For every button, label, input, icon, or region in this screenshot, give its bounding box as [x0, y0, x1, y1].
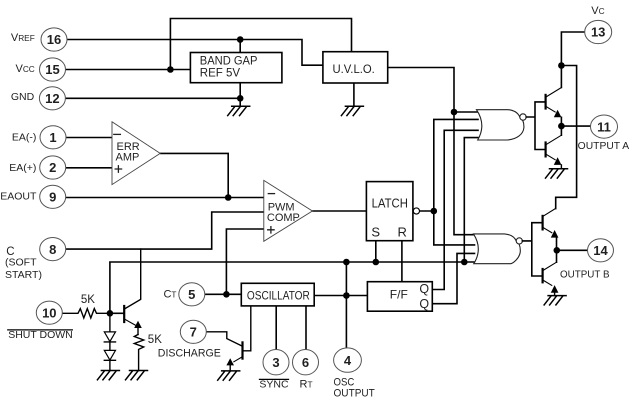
svg-text:VCC: VCC	[15, 63, 34, 75]
pin 5	[179, 283, 205, 306]
svg-text:OUTPUT A: OUTPUT A	[578, 141, 630, 152]
svg-text:SHUT DOWN: SHUT DOWN	[8, 329, 73, 341]
NOR gate 1 bubble	[520, 114, 526, 120]
wire F/F Q to gate1	[432, 130, 478, 289]
box BAND GAP REF 5V	[190, 53, 282, 83]
svg-text:BAND GAP: BAND GAP	[200, 56, 258, 68]
svg-text:COMP: COMP	[267, 212, 300, 224]
svg-text:GND: GND	[11, 91, 35, 103]
wire oscillator to pin6 RT	[305, 306, 307, 350]
wire UVLO ground	[353, 83, 355, 106]
pin 2	[40, 156, 66, 179]
svg-text:9: 9	[49, 190, 56, 205]
wire blanking line from shutdown node across to gate2, with branch up to gate1	[110, 138, 478, 314]
svg-text:11: 11	[597, 119, 611, 134]
box LATCH	[366, 182, 413, 241]
pin 4	[334, 348, 362, 372]
pin 16	[41, 28, 67, 51]
wire EA(+) input	[66, 167, 112, 169]
node VREF-bandgap junction	[237, 36, 244, 43]
box UVLO	[323, 52, 388, 83]
svg-text:START): START)	[5, 269, 42, 281]
svg-text:10: 10	[42, 305, 56, 320]
ground below diodes	[97, 371, 119, 380]
wire GND net: pin12 to bandgap ground	[65, 83, 240, 107]
NOR gate 1 (output A)	[477, 110, 524, 140]
pin 12	[39, 87, 65, 110]
svg-text:16: 16	[47, 32, 61, 47]
svg-text:Q: Q	[419, 282, 429, 296]
svg-text:13: 13	[591, 25, 605, 40]
pin 11	[591, 115, 618, 138]
wire VCC net: pin15 to bandgap left, riser to top rail feeding UVLO top	[66, 19, 352, 70]
wire NOR2 output to B transistor bases	[522, 223, 541, 276]
svg-text:F/F: F/F	[390, 288, 408, 302]
wire oscillator output to F/F and down to pin4, up to blanking line	[314, 262, 367, 348]
pin 1	[40, 126, 66, 149]
svg-text:RT: RT	[300, 379, 313, 391]
wire latch R input down to F/F	[401, 241, 403, 282]
pin 3	[263, 350, 289, 375]
node CT junction	[223, 291, 230, 298]
wire F/F Qbar to gate2	[432, 253, 474, 303]
svg-text:EAOUT: EAOUT	[0, 191, 37, 203]
pin 9	[40, 185, 66, 208]
wire NOR1 output to A transistor bases	[526, 102, 544, 150]
svg-text:4: 4	[344, 353, 352, 368]
wire EAOUT line: pin9 to PWM inverting input	[66, 197, 263, 199]
wire UVLO output to both NOR gates	[388, 68, 478, 235]
wire VREF net: pin16 to bandgap top and UVLO left input	[67, 40, 323, 66]
node blanking-gate1 junction	[461, 259, 468, 266]
node output B	[554, 247, 561, 254]
diode D1	[109, 317, 111, 332]
node GND junction	[237, 95, 244, 102]
svg-text:7: 7	[190, 325, 197, 340]
wire latch S input to blanking line	[375, 241, 377, 262]
NOR gate 2 (output B)	[474, 234, 521, 264]
wire LATCH output bus up to gate1 and down to gate2	[420, 119, 478, 244]
svg-text:S: S	[371, 224, 380, 239]
svg-text:OUTPUT B: OUTPUT B	[560, 270, 610, 281]
wire ERR AMP output down to EAOUT line	[161, 153, 228, 197]
svg-text:SYNC: SYNC	[259, 379, 289, 391]
svg-text:Q: Q	[419, 297, 429, 311]
ground below UVLO	[341, 106, 363, 115]
wire output A to pin 11	[561, 125, 590, 127]
node latch output junction	[431, 208, 438, 215]
wire oscillator to pin3 SYNC	[275, 306, 277, 350]
svg-text:5K: 5K	[81, 294, 95, 306]
svg-text:EA(-): EA(-)	[12, 132, 37, 144]
svg-text:DISCHARGE: DISCHARGE	[158, 347, 221, 359]
svg-text:AMP: AMP	[116, 152, 140, 164]
discharge transistor Q-discharge	[207, 332, 242, 346]
ground below bandgap	[228, 106, 250, 115]
svg-text:3: 3	[272, 355, 279, 370]
svg-text:CT: CT	[163, 288, 176, 300]
pin 13	[585, 20, 612, 43]
svg-text:VREF: VREF	[11, 32, 35, 44]
op-amp PWM COMP	[264, 180, 313, 241]
op-amp ERR AMP	[112, 122, 160, 185]
node EAOUT junction	[225, 194, 232, 201]
box OSCILLATOR	[241, 283, 314, 306]
node UVLO to gate1	[451, 109, 458, 116]
svg-text:OUTPUT: OUTPUT	[334, 387, 376, 399]
resistor 5K emitter	[134, 335, 143, 371]
box F/F	[367, 282, 432, 312]
node output A	[558, 123, 565, 130]
svg-text:2: 2	[49, 160, 56, 175]
svg-text:6: 6	[302, 355, 309, 370]
pin 14	[588, 239, 614, 262]
ground below output A	[546, 169, 568, 178]
pin 15	[40, 58, 66, 81]
pin 6	[293, 350, 319, 375]
transistor QA-top	[546, 88, 562, 136]
node shutdown junction	[107, 310, 114, 317]
resistor 5K from pin10	[62, 309, 110, 318]
svg-text:5: 5	[188, 287, 195, 302]
svg-text:12: 12	[45, 91, 59, 106]
pin 7	[180, 320, 206, 343]
transistor QA-bottom	[546, 135, 562, 169]
wire EA(-) input	[67, 137, 113, 139]
latch output bubble	[413, 208, 419, 214]
svg-text:8: 8	[49, 242, 56, 257]
wire VC net: pin13 down to output A collector and rail to output B	[556, 32, 585, 209]
node VC junction	[558, 62, 565, 69]
svg-text:OSCILLATOR: OSCILLATOR	[247, 290, 310, 302]
node S junction	[373, 259, 380, 266]
ground below output B	[544, 296, 566, 305]
svg-text:LATCH: LATCH	[372, 197, 408, 211]
svg-text:5K: 5K	[148, 334, 162, 346]
NOR gate 2 bubble	[516, 238, 522, 244]
svg-text:14: 14	[593, 243, 608, 258]
node osc-blanking junction	[343, 259, 350, 266]
svg-text:REF 5V: REF 5V	[200, 68, 241, 80]
ground below discharge	[218, 371, 240, 380]
svg-text:EA(+): EA(+)	[9, 162, 36, 174]
node osc-pin4 junction	[343, 292, 350, 299]
wire soft-start pin8 to PWM middle input	[66, 212, 263, 249]
pin 8	[40, 238, 66, 261]
wire CT line: pin5 to oscillator, riser to PWM + input	[205, 229, 264, 294]
diode D2	[104, 350, 115, 360]
transistor Q-shutdown	[113, 249, 141, 334]
svg-text:1: 1	[49, 130, 56, 145]
svg-text:R: R	[398, 224, 407, 239]
svg-text:U.V.L.O.: U.V.L.O.	[333, 64, 375, 76]
wire PWM output to LATCH	[312, 210, 366, 212]
transistor QB-bottom	[543, 262, 557, 295]
svg-text:VC: VC	[591, 5, 604, 17]
node VCC riser junction	[167, 66, 174, 73]
svg-text:(SOFT: (SOFT	[5, 257, 37, 269]
transistor QB-top	[543, 208, 557, 262]
ground below emitter resistor	[126, 371, 148, 380]
wire output B to pin 14	[557, 249, 588, 251]
pin 10	[36, 301, 62, 324]
svg-text:15: 15	[45, 62, 59, 77]
